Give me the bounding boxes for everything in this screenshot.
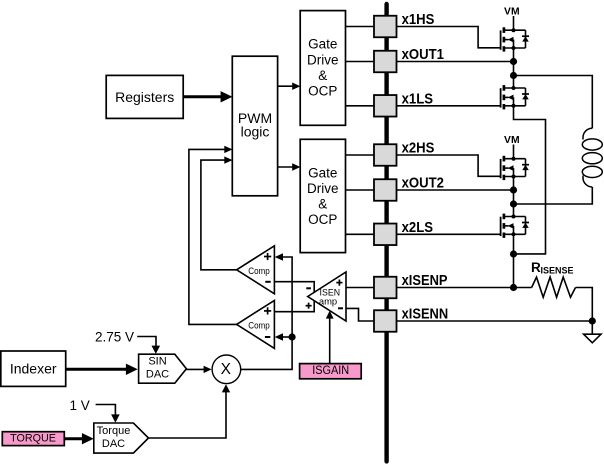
wire: xISENP pad to sense node and resistor: [397, 287, 532, 289]
block PWM logic: [232, 56, 277, 196]
wire: sense junction down to xISENP line: [513, 254, 515, 288]
label ISGAIN: [300, 364, 362, 379]
arrow ISGAIN into ISEN amp: [326, 311, 334, 319]
svg-text:DAC: DAC: [146, 368, 169, 380]
wire: gate drive 2 to pads: [346, 155, 375, 234]
svg-text:Torque: Torque: [97, 425, 131, 437]
wire: 2.75V reference into SIN DAC: [137, 337, 156, 348]
pin pad xISENN: [374, 306, 448, 332]
block Indexer: [1, 351, 66, 386]
wire: xISENN pad to ground node: [397, 320, 593, 322]
node xOUT1 junction: [510, 58, 517, 65]
wire: ISEN amp minus input jog to xISENN pad: [346, 308, 374, 321]
svg-text:amp: amp: [319, 296, 337, 307]
wire: winding tap 1 to inductor top: [514, 76, 593, 129]
wire: M2 source down-right to sense junction: [514, 106, 546, 254]
svg-text:xISENN: xISENN: [402, 306, 449, 323]
transistor Q1 (x1 high side): [501, 27, 529, 51]
pin pad x1HS: [374, 11, 434, 37]
wire: comp2 output to PWM logic input 1: [189, 149, 237, 324]
arrow 1V into Torque DAC: [111, 414, 120, 422]
wire: x2HS pad to M3 gate: [397, 155, 501, 176]
ISEN amp output polarity labels: [306, 288, 312, 308]
pin pad xOUT2: [374, 175, 444, 201]
wire: x1LS pad to M2 gate: [397, 105, 501, 107]
comparator Comp2: [237, 300, 275, 348]
svg-text:VM: VM: [504, 134, 520, 146]
wire: comp1 output to PWM logic input 2: [201, 160, 237, 270]
pin pad x1LS: [374, 90, 433, 116]
svg-text:ISENSE: ISENSE: [541, 265, 574, 275]
pin pad x2LS: [374, 219, 433, 245]
svg-text:&: &: [318, 68, 327, 83]
inductor motor winding: [582, 128, 602, 187]
svg-text:&: &: [318, 197, 327, 212]
wire: gate drive 1 to pads: [346, 27, 375, 106]
node xOUT2 junction: [510, 186, 517, 193]
op-amp ISEN amp: [308, 272, 346, 321]
label TORQUE: [2, 432, 64, 446]
wire: SIN DAC output to multiplier: [186, 368, 204, 370]
svg-text:DAC: DAC: [102, 438, 125, 450]
transistor Q2 (x1 low side): [501, 85, 529, 109]
svg-text:Registers: Registers: [115, 89, 174, 105]
svg-text:ISGAIN: ISGAIN: [312, 365, 349, 377]
wire: x1HS pad to M1 gate: [397, 27, 501, 48]
svg-text:xISENP: xISENP: [402, 272, 448, 289]
block gate drive 2: [300, 139, 345, 252]
arrow into comp1 plus input: [275, 253, 283, 260]
block gate drive 1: [300, 11, 345, 126]
thick arrow Indexer to SIN DAC: [66, 364, 138, 375]
svg-text:SIN: SIN: [148, 355, 166, 367]
wire: resistor right end to ground dot: [576, 288, 593, 322]
comparator Comp1: [237, 246, 275, 294]
block SIN DAC: [139, 354, 187, 383]
wire: M4 source to sense junction: [513, 234, 515, 254]
ground: [584, 334, 601, 343]
pin pad x2HS: [374, 140, 434, 166]
wire: xOUT1 pad to half-bridge 1 midpoint: [397, 61, 514, 63]
node winding tap 1: [510, 72, 517, 79]
wire: xOUT2 pad to half-bridge 2 midpoint: [397, 189, 514, 191]
wire: VM1 supply to M1 drain: [513, 16, 515, 30]
arrow 2.75V into SIN DAC: [152, 346, 161, 354]
svg-text:logic: logic: [241, 124, 270, 140]
wire: comp1 minus / comp2 plus tie to ISEN amp output: [274, 282, 314, 312]
svg-text:xOUT2: xOUT2: [402, 175, 444, 192]
svg-text:OCP: OCP: [308, 212, 337, 227]
svg-text:Indexer: Indexer: [10, 361, 57, 377]
svg-text:VM: VM: [504, 6, 520, 18]
arrow PWM logic to gate drive 2: [278, 163, 301, 170]
transistor Q3 (x2 high side): [501, 156, 529, 180]
wire: VM2 supply to M3 drain: [513, 145, 515, 159]
svg-text:2.75 V: 2.75 V: [95, 330, 134, 345]
block Registers: [106, 75, 183, 118]
node winding tap 2: [510, 200, 517, 207]
wire: ISGAIN to ISEN amp: [329, 318, 331, 364]
svg-text:Drive: Drive: [307, 52, 339, 67]
wire: x2LS pad to M4 gate: [397, 233, 501, 235]
svg-text:R: R: [531, 260, 541, 275]
node xISENN ground junction: [589, 317, 596, 324]
wire: 1V reference into Torque DAC: [96, 405, 116, 416]
wire: multiplier output up to comp1 plus input: [241, 257, 292, 369]
node LS source junction: [510, 250, 517, 257]
svg-text:x1HS: x1HS: [402, 11, 435, 28]
svg-text:1 V: 1 V: [70, 398, 90, 413]
resistor RISENSE: [532, 277, 576, 297]
wire: ground dot to ground symbol: [591, 321, 593, 334]
arrow SIN DAC into multiplier: [204, 366, 212, 373]
node xISENP sense junction: [510, 284, 517, 291]
arrow PWM logic to gate drive 1: [278, 83, 301, 90]
block Torque DAC: [94, 423, 149, 453]
svg-text:Gate: Gate: [308, 37, 337, 52]
arrow Torque DAC into multiplier: [222, 384, 230, 392]
thick arrow TORQUE to Torque DAC: [64, 433, 93, 444]
svg-text:Comp: Comp: [248, 320, 270, 331]
wire: ISEN amp plus input to xISENP pad: [346, 287, 374, 289]
node DAC reference branch: [289, 333, 296, 340]
pin pad xOUT1: [374, 46, 444, 72]
wire: branch from multiplier line to comp2 minus input: [283, 336, 292, 338]
chip boundary line: [384, 4, 388, 461]
wire: inductor bottom to winding tap 2: [514, 187, 593, 204]
svg-text:Gate: Gate: [308, 165, 337, 180]
svg-text:x2HS: x2HS: [402, 140, 435, 157]
svg-text:OCP: OCP: [308, 84, 337, 99]
arrow comp1 into PWM logic input 2: [224, 156, 232, 163]
arrow comp2 into PWM logic input 1: [224, 146, 232, 153]
svg-text:x2LS: x2LS: [402, 219, 433, 236]
multiplier X: [212, 355, 241, 384]
svg-text:Comp: Comp: [248, 266, 270, 277]
svg-text:X: X: [221, 361, 232, 378]
pin pad xISENP: [374, 272, 448, 298]
svg-text:x1LS: x1LS: [402, 90, 433, 107]
arrow into comp2 minus input: [275, 333, 283, 340]
svg-text:Drive: Drive: [307, 181, 339, 196]
wire: Torque DAC output up to multiplier: [149, 391, 227, 438]
svg-text:TORQUE: TORQUE: [10, 432, 56, 444]
wire: M3 source to M4 drain: [513, 177, 515, 217]
svg-text:xOUT1: xOUT1: [402, 46, 444, 63]
wire: M1 source to M2 drain: [513, 48, 515, 88]
thick arrow Registers to PWM logic: [183, 91, 232, 102]
transistor Q4 (x2 low side): [501, 214, 529, 238]
